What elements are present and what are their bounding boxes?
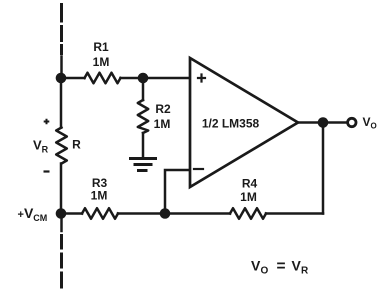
svg-text:VR: VR	[33, 138, 49, 155]
node E (output junction)	[318, 117, 329, 128]
resistor R4	[230, 208, 266, 219]
dashed reference line (top)	[60, 5, 63, 54]
svg-text:V: V	[251, 258, 261, 274]
wire: resistor R to node C	[60, 164, 63, 214]
resistor R2	[138, 100, 148, 133]
op-amp + input symbol	[198, 75, 205, 82]
svg-text:R2: R2	[155, 102, 171, 116]
svg-text:R: R	[301, 266, 309, 277]
wire: R2 to ground	[142, 133, 145, 158]
wire: node C to R3	[61, 212, 82, 215]
op-amp U1	[190, 58, 298, 187]
wire: dashed line solid part to node A	[60, 57, 63, 79]
svg-text:=: =	[277, 258, 286, 275]
svg-text:1M: 1M	[93, 55, 110, 69]
dashed reference line (bottom)	[60, 214, 63, 232]
svg-text:+VCM: +VCM	[18, 205, 48, 223]
svg-text:1M: 1M	[240, 190, 257, 204]
wire: node A to R1 left	[61, 77, 85, 80]
wire: feedback vertical up to node E	[322, 123, 325, 214]
output terminal circle	[348, 118, 356, 126]
wire: R4 right to feedback corner	[266, 212, 323, 215]
wire: op-amp output to terminal	[298, 121, 347, 124]
svg-text:O: O	[261, 266, 269, 277]
svg-text:R1: R1	[93, 40, 109, 54]
wire: node D up and to op-amp - input	[165, 170, 189, 214]
svg-text:1/2 LM358: 1/2 LM358	[202, 117, 260, 131]
svg-text:R: R	[72, 138, 81, 152]
node D	[160, 208, 171, 219]
resistor R1	[85, 73, 121, 84]
resistor R (V_R branch)	[56, 128, 67, 164]
node A	[56, 73, 67, 84]
wire: node B down to R2	[142, 78, 145, 100]
node C	[56, 208, 67, 219]
node B	[138, 73, 149, 84]
wire: R3 to node D	[118, 212, 165, 215]
op-amp - input symbol	[194, 168, 203, 170]
svg-text:VO: VO	[363, 115, 377, 131]
wire: R1 right to op-amp + input	[121, 77, 190, 80]
resistor R3	[82, 208, 118, 219]
svg-text:V: V	[292, 258, 302, 274]
V_R source polarity -	[44, 170, 50, 172]
wire: node A down to resistor R	[60, 78, 63, 128]
ground	[131, 157, 156, 160]
svg-text:R4: R4	[242, 177, 258, 191]
svg-text:1M: 1M	[154, 117, 171, 131]
wire: node D to R4	[165, 212, 230, 215]
V_R source polarity +	[44, 119, 50, 125]
svg-text:1M: 1M	[91, 189, 108, 203]
